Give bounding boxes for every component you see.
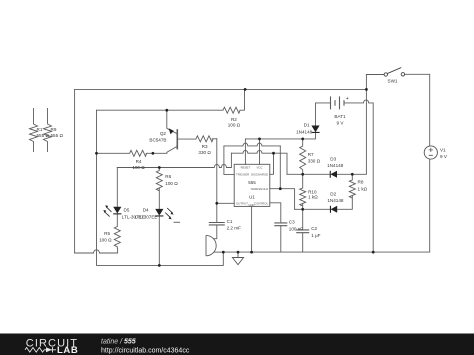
- junction discharge line3: [272, 152, 275, 155]
- resistor R1: [30, 108, 38, 152]
- resistor R2: [223, 107, 240, 113]
- wire R2 right lead up to top edge: [240, 89, 245, 110]
- junction R7 top line1: [301, 138, 304, 141]
- svg-text:R7: R7: [308, 152, 314, 157]
- wire SW1 left lead: [366, 74, 384, 76]
- svg-text:THRESHOLD: THRESHOLD: [250, 187, 268, 191]
- transistor Q2 arrow: [169, 128, 174, 134]
- junction speaker ground rail: [222, 251, 225, 254]
- wire D1 top to battery left: [316, 103, 331, 126]
- svg-text:555: 555: [248, 180, 256, 185]
- junction R2 top edge: [244, 88, 247, 91]
- wire discharge stub: [270, 153, 274, 174]
- svg-text:DISCHARGE: DISCHARGE: [251, 173, 268, 177]
- wire Q2 emitter to R4: [146, 147, 177, 154]
- wire line1 reset/vcc/r7/d1: [245, 132, 315, 139]
- svg-text:LTL-307EE: LTL-307EE: [135, 214, 158, 219]
- wire VCC pin stub: [259, 139, 261, 164]
- svg-text:1N4148: 1N4148: [327, 198, 344, 203]
- svg-text:RESET: RESET: [241, 165, 251, 169]
- wire outer top edge V1/SW1 net: [75, 88, 367, 90]
- svg-text:1 kΩ: 1 kΩ: [358, 187, 368, 192]
- svg-text:LAB: LAB: [57, 345, 78, 355]
- svg-text:100 Ω: 100 Ω: [132, 165, 145, 170]
- svg-text:C3: C3: [289, 220, 295, 225]
- junction battery column rail: [372, 251, 375, 254]
- wire OUTPUT pin to column: [217, 202, 234, 204]
- svg-text:Q2: Q2: [160, 131, 167, 136]
- svg-text:tatine / 555: tatine / 555: [101, 339, 136, 346]
- wire R4 left to rail: [97, 152, 130, 154]
- junction R7 bottom discharge: [301, 173, 304, 176]
- junction VCC line1: [258, 138, 261, 141]
- svg-text:D3: D3: [330, 156, 336, 161]
- junction R10 bottom C2: [301, 208, 304, 211]
- LED D4 arrows: [165, 208, 172, 218]
- svg-text:VCC: VCC: [256, 165, 262, 169]
- wire GND pin stub: [251, 206, 253, 252]
- speaker SP body: [206, 235, 216, 255]
- wire Q2 base to R3: [177, 138, 196, 140]
- wire Q2 collector: [167, 110, 177, 133]
- footer logo resistor-diode glyph: [25, 347, 56, 352]
- junction R6 top trigger line: [158, 166, 161, 169]
- wire line2 left down to TRIGGER: [224, 146, 234, 175]
- svg-text:D2: D2: [330, 192, 336, 197]
- svg-text:100 Ω: 100 Ω: [228, 123, 241, 128]
- wire R8 bottom to D2 anode: [337, 196, 352, 209]
- svg-text:BAT1: BAT1: [334, 114, 346, 119]
- svg-text:D1: D1: [304, 123, 310, 128]
- capacitor C3 plates: [274, 223, 287, 226]
- svg-text:9 V: 9 V: [337, 121, 345, 126]
- svg-text:V1: V1: [440, 147, 446, 152]
- svg-text:1 kΩ: 1 kΩ: [308, 195, 318, 200]
- svg-text:2.2 mF: 2.2 mF: [227, 225, 241, 230]
- svg-text:C2: C2: [311, 226, 317, 231]
- svg-text:1N4148: 1N4148: [296, 129, 313, 134]
- wire C3 bottom: [280, 226, 282, 252]
- footer bar: [0, 334, 474, 355]
- resistor R6: [156, 171, 162, 191]
- wire R10 leads: [302, 174, 304, 209]
- diode D1 body: [311, 126, 319, 133]
- svg-text:R2: R2: [231, 117, 237, 122]
- junction SW1 column top edge: [365, 88, 368, 91]
- svg-text:100 nF: 100 nF: [289, 226, 303, 231]
- resistor R4: [130, 150, 147, 156]
- svg-text:C1: C1: [227, 219, 233, 224]
- wire top line to Q2 and R2: [97, 109, 224, 111]
- wire D4 bottom to lower line: [158, 216, 160, 266]
- wire ground symbol stub: [237, 252, 239, 257]
- wire RESET pin stub: [244, 139, 246, 164]
- svg-text:CONTROL: CONTROL: [254, 201, 269, 205]
- svg-text:330 Ω: 330 Ω: [198, 150, 211, 155]
- svg-text:R6: R6: [165, 174, 171, 179]
- wire line2 trigger-threshold: [224, 143, 280, 146]
- svg-text:OUTPUT: OUTPUT: [236, 201, 248, 205]
- junction D4 bottom line: [158, 264, 161, 267]
- diode D3 body: [330, 171, 337, 178]
- resistor R7: [300, 146, 306, 170]
- battery BAT1 plates: [331, 96, 345, 109]
- wire THRESHOLD jog: [270, 189, 295, 210]
- resistor R9: [44, 108, 52, 152]
- wire C1 bottom to speaker top: [214, 225, 217, 239]
- svg-text:TRIGGER: TRIGGER: [236, 173, 249, 177]
- voltage source V1 circle: [424, 146, 437, 159]
- wire D5 top lead: [116, 168, 118, 207]
- wire R3 right to output column: [212, 138, 217, 140]
- node emitter R4: [152, 152, 155, 155]
- wire ground rail: [223, 159, 429, 252]
- svg-text:555 Ω: 555 Ω: [37, 133, 50, 138]
- svg-text:R1: R1: [37, 127, 43, 132]
- LED D5 body: [113, 207, 121, 214]
- svg-text:GND: GND: [248, 203, 254, 207]
- svg-text:R8: R8: [358, 180, 364, 185]
- junction R8 top: [351, 173, 354, 176]
- svg-text:+: +: [346, 96, 349, 102]
- svg-text:R9: R9: [51, 127, 57, 132]
- wire SW1 right to V1 top: [405, 74, 430, 145]
- wire R7 top tee: [302, 139, 304, 146]
- svg-text:D5: D5: [124, 208, 130, 213]
- svg-text:D4: D4: [143, 208, 149, 213]
- capacitor C1 plates: [209, 223, 225, 225]
- wire R6 to D4: [158, 189, 160, 209]
- junction output column: [215, 202, 218, 205]
- wire inner rail vertical: [97, 110, 224, 265]
- wire CONTROL to C3: [270, 203, 281, 223]
- svg-text:http://circuitlab.com/c4364cc: http://circuitlab.com/c4364cc: [101, 348, 190, 355]
- wire R7 bottom to discharge line: [302, 170, 304, 174]
- diode D2 body: [331, 206, 338, 213]
- resistor R8: [349, 180, 355, 198]
- svg-text:1N4148: 1N4148: [327, 163, 344, 168]
- junction rail R4: [95, 152, 98, 155]
- LED D5 arrows: [104, 207, 111, 217]
- switch SW1: [384, 73, 387, 76]
- svg-text:SW1: SW1: [388, 78, 398, 83]
- wire R6 top tee: [158, 168, 160, 171]
- transistor Q2 body: [176, 129, 178, 149]
- svg-text:330 Ω: 330 Ω: [308, 159, 321, 164]
- svg-text:R4: R4: [136, 159, 142, 164]
- junction Q2 collector: [165, 109, 168, 112]
- ground symbol: [232, 258, 243, 265]
- wire battery right with hop over SW column: [344, 100, 373, 252]
- wire line2 right down to threshold dot: [279, 146, 281, 189]
- wire D3 anode to SW1 column: [337, 75, 366, 175]
- wire bottom jog to R5 with hop over inner rail: [75, 249, 118, 254]
- svg-text:1 μF: 1 μF: [311, 233, 320, 238]
- resistor R3: [196, 136, 213, 142]
- svg-text:555 Ω: 555 Ω: [51, 133, 64, 138]
- svg-text:9 V: 9 V: [440, 154, 448, 159]
- wire D2 cathode to R10 bottom: [295, 208, 331, 210]
- resistor R10: [300, 188, 306, 206]
- wire trigger line D5/R6 with hops: [117, 153, 231, 167]
- LED D4 body: [155, 209, 163, 216]
- wire speaker bottom to ground rail: [214, 251, 223, 253]
- junction threshold: [279, 187, 282, 190]
- wire D5 to R5: [116, 214, 118, 227]
- resistor R5: [114, 227, 120, 249]
- svg-text:BC547B: BC547B: [149, 138, 166, 143]
- wire outer left edge: [74, 89, 76, 253]
- svg-text:R5: R5: [104, 231, 110, 236]
- wire output column R3 to C1 with trigger-line pass: [216, 139, 218, 223]
- svg-text:100 Ω: 100 Ω: [99, 238, 112, 243]
- junction ground symbol rail: [237, 251, 240, 254]
- wire line3 discharge bus: [231, 150, 287, 174]
- wire C2 column: [302, 209, 304, 252]
- wire discharge line segment B: [287, 173, 330, 175]
- svg-text:U1: U1: [249, 194, 255, 199]
- wire R8 top tee: [351, 174, 353, 180]
- op-amp U1 555 IC box: [234, 164, 270, 206]
- svg-text:100 Ω: 100 Ω: [165, 181, 178, 186]
- capacitor C2 plates: [296, 230, 309, 233]
- junction GND pin rail: [250, 251, 253, 254]
- svg-text:R3: R3: [202, 144, 208, 149]
